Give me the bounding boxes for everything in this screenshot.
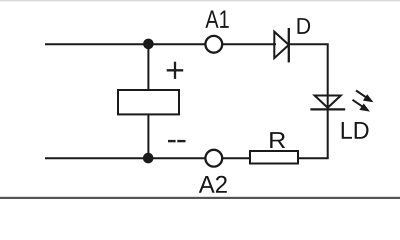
- wire left branch vertical: [147, 44, 149, 158]
- terminal A2: [205, 150, 222, 167]
- node junction bottom: [143, 153, 154, 164]
- polarity plus: [167, 62, 184, 79]
- bottom page rule: [0, 197, 400, 199]
- label R: [270, 132, 285, 148]
- wire top right segment: [289, 43, 329, 45]
- LED arrow 2: [353, 100, 371, 112]
- top page border: [0, 0, 400, 1]
- wire right vertical: [327, 44, 329, 158]
- label A2: [199, 176, 227, 193]
- label LD: [342, 122, 369, 139]
- relay coil: [118, 90, 179, 114]
- wire top horizontal: [45, 43, 276, 45]
- label A1: [205, 11, 228, 28]
- wire bottom horizontal: [45, 157, 329, 159]
- LED LD: [310, 96, 345, 110]
- resistor R: [250, 151, 298, 164]
- terminal A1: [205, 36, 222, 53]
- diode D: [274, 28, 289, 62]
- polarity minus: [168, 140, 186, 142]
- node junction top: [143, 39, 154, 50]
- label D: [298, 18, 311, 34]
- LED arrow 1: [356, 91, 374, 103]
